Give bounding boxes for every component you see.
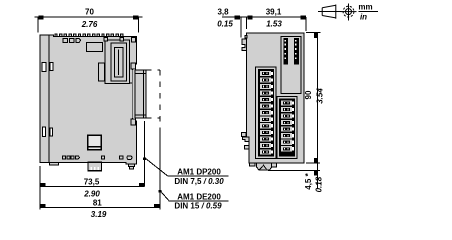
front view module body [246, 33, 304, 163]
front view bottom left clip pieces [249, 163, 276, 167]
side view rail channel lower hook [131, 119, 136, 125]
side view expansion connector shroud [105, 40, 132, 84]
svg-text:4,5 *: 4,5 * [304, 172, 313, 189]
front view left terminal cover [256, 67, 277, 159]
dimension texts left view [81, 8, 107, 220]
first angle projection symbol [318, 5, 342, 19]
side view three small squares top left [63, 39, 81, 43]
svg-text:AM1 DE200: AM1 DE200 [177, 193, 221, 202]
front view bottom clip tab [257, 163, 272, 170]
leader AM1 DE200 [159, 190, 229, 201]
svg-text:90: 90 [304, 90, 313, 99]
dimension 70 / 2.76 top [35, 16, 143, 33]
front view left terminal frame and cells [258, 69, 274, 157]
side view DIN latch tab bottom [88, 162, 102, 170]
svg-text:39,1: 39,1 [266, 8, 282, 17]
side view pegs on connector top [104, 38, 124, 41]
side view upper rectangle detail [87, 42, 103, 51]
extension line deep rail (81) [159, 128, 161, 210]
side view front strip divider [48, 35, 50, 162]
svg-text:mm: mm [358, 3, 372, 12]
dimension 39,1 / 1.53 arrows [301, 16, 306, 31]
front view left bus connector nub [242, 36, 247, 51]
front view right terminal cover [277, 97, 297, 159]
side view rail channel upper hook [131, 63, 136, 69]
svg-text:3.19: 3.19 [91, 210, 107, 219]
svg-text:DIN 7,5 / 0.30: DIN 7,5 / 0.30 [174, 177, 224, 186]
front view right terminal frame [279, 99, 295, 157]
dimension 81 / 3.19 bottom [40, 205, 160, 208]
dimension 4,5 / 0.18 bottom right [268, 170, 320, 175]
mm over in legend [358, 3, 378, 22]
front view top-right panel [281, 37, 301, 94]
svg-text:in: in [360, 13, 367, 22]
side view bottom small squares [63, 156, 133, 160]
svg-text:3,8: 3,8 [217, 8, 229, 17]
svg-text:3.54: 3.54 [316, 88, 325, 104]
side view module body [40, 35, 137, 164]
svg-text:70: 70 [85, 8, 94, 17]
svg-text:0.18: 0.18 [315, 176, 324, 192]
svg-text:2.76: 2.76 [81, 20, 98, 29]
side view top-right corner block [132, 38, 136, 43]
side view left clips [42, 62, 53, 136]
front view left lower clamp nubs [242, 132, 250, 149]
svg-text:73,5: 73,5 [84, 177, 100, 186]
side view label plate bottom center [88, 135, 102, 150]
DIN rail deep option dashed [146, 70, 160, 128]
extension line rail front (73,5) [144, 121, 146, 186]
svg-text:AM1 DP200: AM1 DP200 [177, 167, 221, 176]
leader AM1 DP200 [143, 157, 228, 176]
front view LED strip left [284, 38, 289, 64]
DIN rail interior fill [132, 70, 145, 118]
projection symbol circle [341, 4, 357, 21]
svg-text:2.90: 2.90 [83, 190, 100, 199]
labels AM1 [174, 167, 224, 210]
svg-text:1.53: 1.53 [266, 19, 282, 28]
dimension 3,8 / 0.15 top [222, 16, 306, 38]
dimension texts front view [217, 8, 324, 193]
side view top vent bumps [55, 34, 123, 37]
side view bottom right foot [129, 164, 135, 169]
dimension 90 / 3.54 right [306, 33, 321, 189]
svg-text:81: 81 [93, 199, 102, 208]
front view LED strip right [294, 38, 299, 64]
dimension 73,5 / 2.90 bottom [40, 166, 145, 210]
svg-text:DIN 15 / 0.59: DIN 15 / 0.59 [174, 202, 222, 211]
side view bottom left foot [49, 162, 58, 165]
DIN rail profile [135, 70, 146, 118]
side view pin rectangle [99, 63, 105, 81]
svg-text:0.15: 0.15 [217, 20, 233, 29]
